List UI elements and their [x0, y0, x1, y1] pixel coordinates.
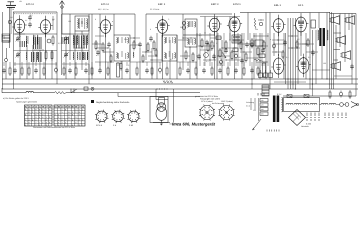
svg-text:a) Die Werte gelten fur 220 V: a) Die Werte gelten fur 220 V	[3, 97, 30, 100]
svg-text:ECH 4: ECH 4	[101, 3, 109, 6]
svg-text:41: 41	[39, 106, 41, 109]
svg-text:5: 5	[35, 111, 36, 114]
svg-text:9: 9	[29, 121, 30, 124]
svg-text:8: 8	[35, 109, 36, 112]
svg-text:7: 7	[61, 121, 62, 124]
svg-text:50k: 50k	[255, 28, 258, 31]
svg-text:3: 3	[79, 124, 80, 127]
svg-text:4: 4	[82, 109, 83, 112]
svg-text:5: 5	[42, 111, 43, 114]
svg-text:4: 4	[42, 116, 43, 119]
svg-text:0,5: 0,5	[58, 42, 61, 45]
svg-text:t.W: t.W	[19, 0, 22, 3]
svg-text:50k: 50k	[124, 38, 127, 41]
svg-text:3: 3	[58, 121, 59, 124]
svg-text:3: 3	[25, 119, 26, 122]
svg-text:42: 42	[82, 106, 84, 109]
svg-text:2: 2	[49, 116, 50, 119]
svg-text:3: 3	[29, 124, 30, 127]
svg-text:18: 18	[61, 106, 63, 109]
svg-text:3: 3	[65, 119, 66, 122]
svg-text:6: 6	[29, 111, 30, 114]
svg-text:4: 4	[55, 119, 56, 122]
svg-text:5: 5	[35, 116, 36, 119]
svg-text:8: 8	[25, 109, 26, 112]
svg-text:8: 8	[61, 119, 62, 122]
svg-text:7: 7	[61, 116, 62, 119]
svg-text:6: 6	[25, 114, 26, 117]
svg-text:27: 27	[46, 106, 48, 109]
svg-text:2: 2	[65, 121, 66, 124]
svg-text:a: a	[112, 21, 113, 23]
svg-text:mit Schirmung: mit Schirmung	[212, 102, 224, 105]
svg-text:1: 1	[25, 121, 26, 124]
svg-text:8: 8	[68, 111, 69, 114]
svg-text:Abgleichanleitung siehe Ruckse: Abgleichanleitung siehe Ruckseite	[96, 101, 130, 104]
svg-text:a: a	[270, 39, 271, 41]
svg-text:8: 8	[39, 109, 40, 112]
svg-text:100: 100	[323, 62, 326, 65]
svg-text:8: 8	[72, 119, 73, 122]
svg-text:6: 6	[29, 109, 30, 112]
svg-text:0: 0	[49, 109, 50, 112]
svg-text:8: 8	[146, 50, 147, 53]
svg-text:5: 5	[68, 119, 69, 122]
svg-text:23: 23	[49, 106, 51, 109]
svg-text:1: 1	[32, 109, 33, 112]
svg-text:3: 3	[75, 121, 76, 124]
svg-text:3: 3	[75, 116, 76, 119]
svg-text:0: 0	[68, 114, 69, 117]
svg-text:Gemessen mit Rohrenvoltmeter b: Gemessen mit Rohrenvoltmeter bei 220 V N…	[33, 126, 75, 129]
svg-text:ECH 4: ECH 4	[96, 124, 103, 127]
svg-text:38: 38	[42, 106, 44, 109]
svg-text:0: 0	[46, 119, 47, 122]
svg-text:1: 1	[46, 116, 47, 119]
svg-text:0,5: 0,5	[170, 58, 173, 61]
svg-text:0,5: 0,5	[30, 14, 33, 17]
svg-text:220: 220	[253, 109, 256, 112]
svg-text:5: 5	[58, 114, 59, 117]
svg-text:13: 13	[32, 106, 34, 109]
svg-text:2: 2	[72, 111, 73, 114]
svg-text:8: 8	[150, 28, 151, 31]
svg-text:9: 9	[25, 124, 26, 127]
svg-text:58: 58	[68, 106, 70, 109]
svg-text:9: 9	[49, 121, 50, 124]
svg-text:100: 100	[344, 54, 347, 57]
svg-text:45: 45	[35, 106, 37, 109]
svg-text:7: 7	[32, 116, 33, 119]
svg-text:6: 6	[29, 119, 30, 122]
svg-text:ZF 473 kHz: ZF 473 kHz	[150, 8, 159, 11]
svg-text:4: 4	[29, 114, 30, 117]
svg-text:1: 1	[61, 111, 62, 114]
svg-text:Imca 606, Mustergerät: Imca 606, Mustergerät	[172, 121, 216, 126]
svg-text:3: 3	[42, 114, 43, 117]
svg-text:5: 5	[39, 116, 40, 119]
svg-text:59: 59	[65, 106, 67, 109]
svg-text:0,1: 0,1	[236, 36, 239, 39]
svg-text:0,5: 0,5	[297, 38, 300, 41]
svg-text:6: 6	[39, 111, 40, 114]
svg-text:7: 7	[82, 124, 83, 127]
svg-text:0: 0	[46, 111, 47, 114]
svg-text:100: 100	[68, 20, 71, 23]
svg-text:Spannungen gemessen: Spannungen gemessen	[16, 100, 37, 103]
svg-text:0,5: 0,5	[262, 60, 265, 63]
svg-text:30,5 - 31,5 m: 30,5 - 31,5 m	[98, 8, 109, 11]
svg-text:77: 77	[79, 106, 81, 109]
svg-text:1: 1	[61, 109, 62, 112]
svg-text:ECH 4: ECH 4	[26, 3, 34, 6]
svg-text:7: 7	[79, 109, 80, 112]
svg-text:7: 7	[39, 121, 40, 124]
svg-text:0,1: 0,1	[199, 34, 202, 37]
svg-text:5: 5	[35, 119, 36, 122]
svg-text:2: 2	[32, 111, 33, 114]
svg-text:EBC 3: EBC 3	[211, 3, 219, 6]
svg-text:EFM 1: EFM 1	[233, 3, 241, 6]
svg-text:8: 8	[32, 119, 33, 122]
svg-text:7: 7	[46, 109, 47, 112]
svg-text:8: 8	[222, 64, 223, 67]
svg-text:8: 8	[95, 18, 96, 21]
svg-text:1: 1	[39, 114, 40, 117]
svg-text:86: 86	[58, 106, 60, 109]
svg-text:4: 4	[75, 109, 76, 112]
svg-text:a: a	[96, 55, 97, 57]
svg-text:3: 3	[75, 119, 76, 122]
svg-text:7: 7	[79, 114, 80, 117]
svg-text:8: 8	[42, 109, 43, 112]
svg-text:Sicherung: Sicherung	[246, 101, 254, 104]
svg-text:7: 7	[55, 114, 56, 117]
svg-text:0: 0	[79, 119, 80, 122]
svg-text:0,1: 0,1	[206, 60, 209, 63]
svg-text:1b: 1b	[12, 8, 14, 11]
svg-text:0,1: 0,1	[286, 56, 289, 59]
svg-text:AZ 1: AZ 1	[298, 4, 304, 7]
svg-text:5: 5	[58, 119, 59, 122]
svg-text:0,5: 0,5	[308, 56, 311, 59]
svg-text:8: 8	[306, 44, 307, 47]
svg-text:8: 8	[65, 109, 66, 112]
svg-text:8: 8	[79, 111, 80, 114]
svg-text:50k: 50k	[180, 26, 183, 29]
svg-text:7: 7	[35, 121, 36, 124]
svg-text:8: 8	[337, 40, 338, 43]
svg-text:Netztrafo: Netztrafo	[301, 125, 309, 128]
svg-text:8: 8	[46, 121, 47, 124]
svg-text:EBL 1: EBL 1	[274, 4, 282, 7]
svg-text:0: 0	[82, 119, 83, 122]
svg-text:5: 5	[35, 114, 36, 117]
svg-text:69: 69	[75, 106, 77, 109]
svg-text:2: 2	[75, 111, 76, 114]
svg-text:91: 91	[25, 106, 27, 109]
svg-text:0,1: 0,1	[25, 19, 27, 22]
svg-text:2: 2	[42, 121, 43, 124]
svg-text:EBF 2: EBF 2	[158, 3, 166, 6]
svg-text:2: 2	[58, 116, 59, 119]
svg-text:86: 86	[72, 106, 74, 109]
svg-text:9: 9	[72, 114, 73, 117]
svg-text:8: 8	[68, 116, 69, 119]
